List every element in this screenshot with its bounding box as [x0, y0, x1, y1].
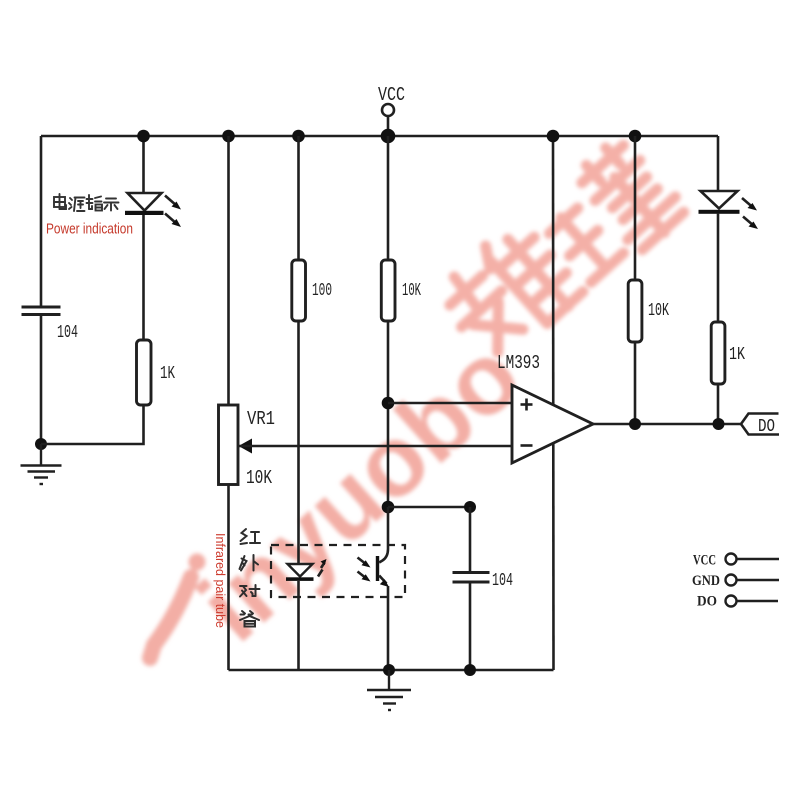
svg-text:LM393: LM393 — [497, 352, 540, 374]
ground left — [21, 444, 62, 484]
svg-text:Infrared pair tube: Infrared pair tube — [213, 533, 228, 628]
resistor R2 100 — [292, 260, 306, 321]
svg-text:10K: 10K — [246, 467, 272, 489]
svg-text:1K: 1K — [729, 345, 745, 365]
node junction — [137, 130, 150, 143]
svg-text:VCC: VCC — [378, 84, 405, 106]
wire rail corner to LED2 — [717, 136, 720, 191]
capacitor C1 104 — [22, 307, 61, 315]
wire: LM393 power vertical (behind triangle) — [552, 136, 555, 670]
watermark char 2 (瑾) — [531, 135, 688, 291]
node plus input junction — [382, 397, 395, 410]
output tag DO — [741, 414, 779, 435]
wire R3 down to plus node — [387, 321, 390, 507]
svg-text:10K: 10K — [402, 281, 421, 301]
dashed box infrared pair — [271, 545, 405, 597]
node junction — [464, 501, 476, 513]
svg-text:GND: GND — [692, 573, 720, 589]
svg-text:104: 104 — [492, 571, 513, 591]
node junction — [629, 130, 642, 143]
ground bottom — [367, 670, 411, 710]
wire — [40, 315, 43, 445]
wire R4 to output — [634, 342, 637, 424]
wire from LED1 chain bottom to left node — [41, 405, 144, 444]
node junction — [222, 130, 235, 143]
watermark char 1 (雉) — [432, 218, 584, 369]
wire down to cap — [469, 507, 472, 572]
wire cap to bottom rail — [469, 582, 472, 670]
svg-text:DO: DO — [697, 594, 717, 610]
node junction — [547, 130, 560, 143]
wire: minus input from wiper — [239, 445, 513, 448]
node junction mid — [382, 501, 395, 514]
wire rail to R4 — [634, 136, 637, 280]
wire rail to R3 — [387, 136, 390, 260]
wire LED2 to R5 — [717, 213, 720, 322]
svg-text:VR1: VR1 — [247, 408, 275, 430]
connector pin VCC — [693, 553, 779, 569]
wire: output — [593, 423, 741, 426]
capacitor C2 104 — [453, 573, 490, 583]
node junction — [383, 664, 395, 676]
LED D2 — [699, 191, 759, 229]
wire rail to VR1 — [227, 136, 230, 405]
node junction — [464, 664, 476, 676]
wire: bottom ground rail — [229, 669, 554, 672]
wire VR1 bottom to bottom rail — [227, 485, 230, 671]
label 电源指示 (hand drawn) — [54, 194, 119, 211]
resistor R3 10K — [381, 260, 395, 321]
resistor R4 10K — [628, 280, 642, 342]
wire R2 to IR LED — [297, 321, 300, 564]
svg-text:104: 104 — [57, 323, 78, 343]
resistor R5 1K — [711, 322, 725, 384]
wire: left branch down — [40, 136, 43, 307]
IR LED cathode wire to bottom rail — [297, 581, 300, 670]
wire rail to LED1 — [142, 136, 145, 193]
connector pin DO — [697, 594, 778, 610]
svg-text:DO: DO — [758, 417, 775, 437]
node junction left — [35, 438, 47, 450]
IR LED D3 — [286, 559, 327, 581]
potentiometer VR1 10K — [219, 405, 253, 485]
svg-text:10K: 10K — [648, 301, 669, 321]
svg-text:1K: 1K — [160, 364, 175, 384]
op-amp U1 LM393 — [512, 385, 593, 463]
svg-text:Power indication: Power indication — [46, 222, 133, 238]
label 红外对管 (hand drawn) — [240, 529, 261, 627]
wire R5 to output — [717, 384, 720, 424]
wire: plus input — [388, 402, 512, 405]
phototransistor Q1 — [358, 507, 390, 670]
wire to cap C2 — [388, 506, 470, 509]
node junction — [382, 130, 395, 143]
wire rail to R2 — [297, 136, 300, 260]
watermark jinyuobo — [150, 319, 542, 662]
resistor R1 1K — [137, 340, 152, 405]
node junction — [629, 418, 641, 430]
node junction — [292, 130, 305, 143]
LED D1 power indicator — [125, 193, 181, 227]
svg-text:100: 100 — [312, 281, 332, 301]
connector pin GND — [692, 573, 779, 589]
node VCC terminal — [378, 84, 405, 143]
wire LED1 to R1 — [142, 215, 145, 340]
svg-text:VCC: VCC — [693, 553, 716, 569]
wire: top VCC rail — [41, 135, 718, 138]
node junction — [713, 418, 725, 430]
